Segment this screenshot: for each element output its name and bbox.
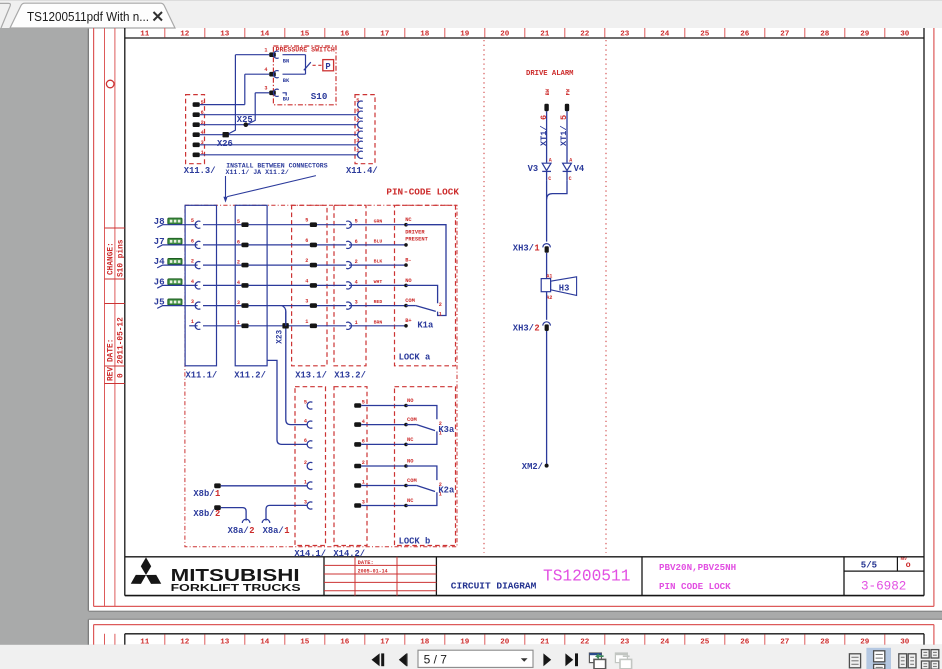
svg-text:PRESSURE SWITCH: PRESSURE SWITCH	[276, 46, 335, 53]
svg-text:3: 3	[355, 300, 358, 306]
svg-text:2: 2	[362, 460, 365, 466]
svg-text:DATE:: DATE:	[358, 560, 374, 566]
svg-text:X13.2/: X13.2/	[334, 370, 366, 380]
svg-text:1: 1	[304, 479, 307, 485]
svg-text:C: C	[569, 176, 572, 182]
svg-text:18: 18	[420, 30, 430, 38]
svg-text:2: 2	[191, 259, 194, 265]
svg-text:X11.1/ JA X11.2/: X11.1/ JA X11.2/	[226, 169, 289, 176]
svg-text:XT1/: XT1/	[559, 125, 569, 146]
svg-text:NC: NC	[405, 217, 412, 223]
svg-text:COM: COM	[405, 298, 415, 304]
svg-text:4: 4	[237, 280, 240, 286]
svg-text:4: 4	[264, 67, 267, 73]
svg-text:B-: B-	[405, 258, 411, 264]
svg-text:PIN-CODE LOCK: PIN-CODE LOCK	[386, 186, 459, 197]
svg-text:V4: V4	[574, 164, 585, 174]
svg-text:11: 11	[140, 30, 150, 38]
svg-text:3: 3	[362, 500, 365, 506]
svg-text:NO: NO	[407, 459, 414, 465]
svg-text:4: 4	[355, 279, 358, 285]
svg-text:V3: V3	[528, 164, 539, 174]
svg-text:5 / 7: 5 / 7	[424, 652, 448, 666]
svg-text:K2a: K2a	[438, 486, 455, 496]
svg-text:PBV20N,PBV25NH: PBV20N,PBV25NH	[659, 562, 736, 573]
svg-text:5/5: 5/5	[861, 561, 877, 571]
svg-text:LOCK a: LOCK a	[399, 353, 431, 363]
svg-text:3: 3	[305, 299, 308, 305]
svg-text:1: 1	[439, 311, 442, 317]
svg-text:A: A	[569, 158, 572, 164]
svg-text:B+: B+	[405, 318, 411, 324]
svg-text:CIRCUIT DIAGRAM: CIRCUIT DIAGRAM	[451, 581, 537, 592]
svg-text:17: 17	[380, 30, 390, 38]
svg-text:2: 2	[439, 302, 442, 308]
svg-text:5: 5	[237, 219, 240, 225]
svg-text:4: 4	[305, 278, 308, 284]
svg-text:16: 16	[340, 30, 350, 38]
svg-text:X23: X23	[276, 329, 284, 343]
svg-text:26: 26	[740, 30, 750, 38]
svg-text:S10 pins: S10 pins	[118, 239, 126, 277]
svg-text:NO: NO	[407, 398, 414, 404]
svg-text:14: 14	[260, 30, 270, 38]
svg-text:K3a: K3a	[438, 425, 455, 435]
svg-text:BLU: BLU	[374, 239, 383, 245]
svg-text:GRN: GRN	[374, 218, 383, 224]
svg-text:BLK: BLK	[374, 259, 383, 265]
svg-text:1: 1	[362, 480, 365, 486]
svg-text:3: 3	[237, 300, 240, 306]
svg-text:5: 5	[304, 399, 307, 405]
svg-text:DRIVER: DRIVER	[405, 230, 425, 236]
svg-text:CHANGE:: CHANGE:	[108, 242, 116, 275]
svg-text:K1a: K1a	[417, 321, 434, 331]
svg-text:6: 6	[362, 439, 365, 445]
svg-text:6: 6	[237, 239, 240, 245]
svg-text:6: 6	[355, 239, 358, 245]
svg-text:XH3/: XH3/	[513, 324, 534, 334]
svg-text:1: 1	[215, 489, 220, 499]
svg-text:2011-05-12: 2011-05-12	[118, 317, 126, 364]
svg-text:5: 5	[559, 115, 569, 120]
svg-text:3: 3	[191, 299, 194, 305]
svg-text:2: 2	[305, 258, 308, 264]
svg-text:P: P	[325, 62, 330, 72]
svg-text:A1: A1	[546, 274, 552, 280]
svg-text:20: 20	[500, 30, 510, 38]
svg-text:X26: X26	[217, 139, 233, 149]
svg-text:2: 2	[215, 509, 220, 519]
svg-text:o: o	[906, 560, 911, 570]
svg-text:24: 24	[660, 30, 670, 38]
svg-text:X13.1/: X13.1/	[295, 370, 327, 380]
svg-text:TS1200511pdf With n...: TS1200511pdf With n...	[27, 9, 149, 24]
svg-text:BK: BK	[283, 78, 290, 84]
svg-text:2: 2	[304, 460, 307, 466]
svg-text:NC: NC	[407, 498, 414, 504]
svg-text:X11.1/: X11.1/	[186, 370, 218, 380]
svg-text:BU: BU	[283, 96, 289, 102]
svg-text:29: 29	[860, 30, 870, 38]
svg-text:COM: COM	[407, 478, 417, 484]
svg-text:3: 3	[304, 499, 307, 505]
svg-text:1: 1	[237, 320, 240, 326]
svg-text:X8b/: X8b/	[193, 489, 214, 499]
svg-text:WHT: WHT	[374, 279, 383, 285]
svg-text:X8a/: X8a/	[263, 526, 284, 536]
svg-text:4: 4	[304, 418, 307, 424]
svg-text:1: 1	[355, 320, 358, 326]
svg-text:TS1200511: TS1200511	[543, 568, 630, 586]
svg-text:XM2/: XM2/	[522, 462, 543, 472]
svg-text:BW: BW	[545, 88, 551, 95]
svg-text:LOCK b: LOCK b	[399, 537, 431, 547]
svg-text:X8b/: X8b/	[193, 509, 214, 519]
svg-text:FW: FW	[566, 88, 572, 95]
svg-text:S10: S10	[311, 91, 328, 102]
svg-text:DATE:: DATE:	[108, 339, 116, 362]
svg-text:4: 4	[191, 279, 194, 285]
svg-text:2: 2	[534, 324, 539, 334]
svg-text:19: 19	[460, 30, 470, 38]
svg-text:1: 1	[534, 243, 539, 253]
svg-text:2: 2	[237, 260, 240, 266]
svg-text:3: 3	[264, 86, 267, 92]
svg-text:23: 23	[620, 30, 630, 38]
svg-text:COM: COM	[407, 417, 417, 423]
svg-text:X11.3/: X11.3/	[184, 166, 216, 176]
svg-text:BRN: BRN	[374, 319, 383, 325]
svg-text:27: 27	[780, 30, 790, 38]
svg-text:1: 1	[264, 48, 267, 54]
svg-text:6: 6	[191, 238, 194, 244]
svg-text:21: 21	[540, 30, 550, 38]
svg-text:0: 0	[118, 373, 126, 378]
svg-text:12: 12	[180, 30, 190, 38]
svg-text:PIN CODE LOCK: PIN CODE LOCK	[659, 581, 731, 592]
svg-text:1: 1	[305, 319, 308, 325]
svg-text:4: 4	[362, 419, 365, 425]
svg-text:X11.4/: X11.4/	[346, 166, 378, 176]
svg-text:5: 5	[355, 219, 358, 225]
svg-text:6: 6	[304, 438, 307, 444]
svg-text:RED: RED	[374, 299, 383, 305]
svg-text:C: C	[548, 176, 551, 182]
svg-text:H3: H3	[559, 283, 570, 293]
svg-text:X11.2/: X11.2/	[234, 370, 266, 380]
svg-text:5: 5	[305, 218, 308, 224]
svg-text:A: A	[549, 158, 552, 164]
svg-text:6: 6	[539, 115, 549, 120]
svg-text:2005-01-14: 2005-01-14	[358, 569, 388, 575]
svg-text:REV: REV	[108, 367, 116, 381]
svg-text:X14.2/: X14.2/	[333, 549, 365, 559]
svg-text:28: 28	[820, 30, 830, 38]
svg-text:2: 2	[249, 526, 254, 536]
svg-text:1: 1	[284, 526, 289, 536]
svg-text:13: 13	[220, 30, 230, 38]
svg-text:XT1/: XT1/	[539, 125, 549, 146]
svg-text:MITSUBISHI: MITSUBISHI	[171, 565, 300, 585]
svg-text:3-6982: 3-6982	[861, 579, 906, 593]
svg-text:5: 5	[362, 400, 365, 406]
svg-text:15: 15	[300, 30, 310, 38]
svg-text:22: 22	[580, 30, 590, 38]
svg-text:25: 25	[700, 30, 710, 38]
svg-text:1: 1	[191, 319, 194, 325]
svg-text:A2: A2	[546, 295, 552, 301]
svg-text:NC: NC	[407, 437, 414, 443]
svg-text:2: 2	[355, 259, 358, 265]
svg-text:FORKLIFT TRUCKS: FORKLIFT TRUCKS	[171, 583, 301, 594]
svg-text:30: 30	[900, 30, 910, 38]
svg-text:X14.1/: X14.1/	[294, 549, 326, 559]
svg-text:X25: X25	[237, 115, 253, 125]
svg-text:BN: BN	[283, 58, 289, 64]
svg-text:NO: NO	[405, 278, 412, 284]
svg-text:X8a/: X8a/	[228, 526, 249, 536]
svg-text:6: 6	[305, 238, 308, 244]
svg-text:DRIVE ALARM: DRIVE ALARM	[526, 70, 573, 78]
svg-text:XH3/: XH3/	[513, 243, 534, 253]
svg-text:PRESENT: PRESENT	[405, 236, 428, 242]
svg-text:5: 5	[191, 218, 194, 224]
